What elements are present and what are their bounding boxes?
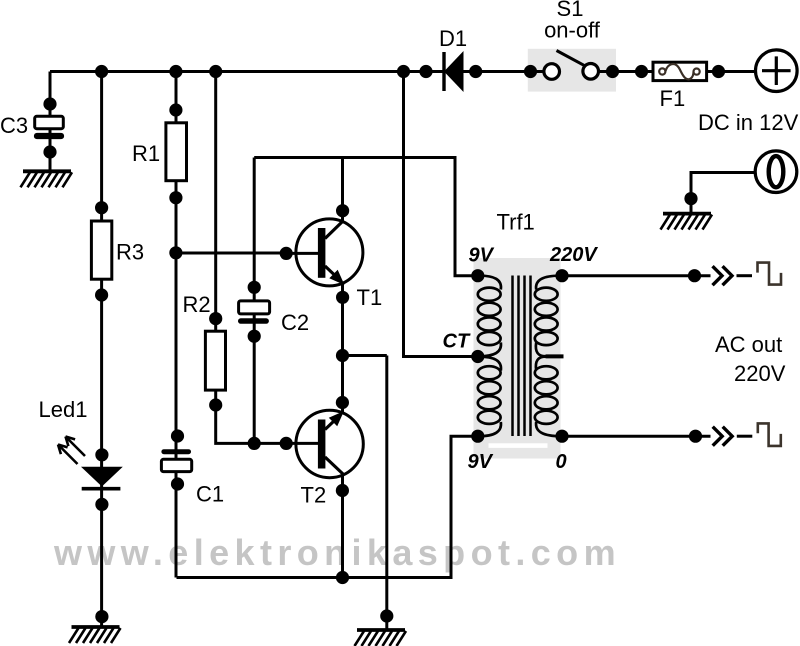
wire T1 base rail: [176, 252, 291, 255]
node emitter ground: [380, 609, 393, 622]
ground 0 terminal: [663, 212, 711, 216]
node F1 left: [635, 65, 648, 78]
svg-text:www.elektronikaspot.com: www.elektronikaspot.com: [53, 532, 621, 573]
wire top rail left of switch: [50, 70, 552, 73]
capacitor C2: [238, 301, 270, 324]
svg-text:0: 0: [556, 451, 567, 473]
node C2 bottom: [248, 330, 261, 343]
node AC out top: [688, 269, 701, 282]
svg-text:Led1: Led1: [39, 397, 88, 422]
transformer Trf1 primary winding lower (CT-9V): [478, 357, 501, 437]
svg-text:9V: 9V: [469, 244, 495, 266]
node 0-terminal ground: [684, 192, 697, 205]
node top-R3: [95, 65, 108, 78]
wire Trf1 220V to AC out top: [562, 274, 711, 277]
svg-text:on-off: on-off: [544, 17, 601, 42]
wire AC out bottom stub: [737, 435, 753, 438]
node T1 emitter: [336, 291, 349, 304]
node T1 collector: [336, 204, 349, 217]
node Trf1 9V bottom: [471, 430, 484, 443]
wire C2 column: [253, 158, 256, 444]
svg-text:220V: 220V: [734, 361, 786, 386]
node R3 top: [95, 201, 108, 214]
node bottom rail junction: [336, 571, 349, 584]
transformer Trf1 secondary tap tick: [546, 354, 564, 358]
transformer Trf1 core: [513, 276, 531, 437]
node AC out bottom: [689, 430, 702, 443]
node T2 base: [280, 437, 293, 450]
AC out bottom connector chevrons: [713, 427, 733, 446]
svg-text:CT: CT: [443, 331, 471, 353]
node Led1 top: [95, 448, 108, 461]
node Led1 ground: [95, 610, 108, 623]
wire R3 Led1 column: [100, 72, 103, 628]
switch S1 highlight background: [528, 49, 616, 92]
node T2 emitter: [336, 396, 349, 409]
svg-text:R2: R2: [183, 292, 211, 317]
node T1-base junction: [169, 246, 182, 259]
svg-text:220V: 220V: [549, 244, 598, 266]
AC out top square wave icon: [758, 263, 782, 285]
wire R2 column to T2 base rail: [216, 72, 291, 444]
ground below Led1: [72, 625, 120, 629]
ground below C3: [23, 169, 71, 173]
node S1 right: [606, 65, 619, 78]
ground emitter node: [357, 628, 405, 632]
svg-text:AC out: AC out: [715, 332, 782, 357]
transistor T2: [286, 410, 363, 477]
node R3 bottom: [95, 288, 108, 301]
wire Trf1 0 to AC out bottom: [562, 435, 711, 438]
node R2 bottom: [209, 398, 222, 411]
capacitor C3: [34, 116, 64, 139]
node R1 bottom: [169, 191, 182, 204]
resistor R2: [205, 331, 225, 390]
svg-text:C2: C2: [281, 310, 309, 335]
svg-text:T1: T1: [357, 285, 383, 310]
node C1 bottom: [171, 477, 184, 490]
node R1 top: [169, 103, 182, 116]
fuse F1: [653, 62, 707, 80]
svg-text:Trf1: Trf1: [497, 210, 535, 235]
switch S1: [544, 51, 599, 80]
wire C3 column: [49, 72, 52, 172]
AC out bottom square wave icon: [758, 423, 781, 446]
wire 0 terminal to ground: [691, 173, 756, 214]
terminal DC plus: [756, 50, 798, 92]
wire transistor spine: [341, 158, 344, 578]
svg-text:C3: C3: [0, 113, 28, 138]
node top-R2: [209, 65, 222, 78]
svg-text:R1: R1: [132, 141, 160, 166]
node C1 top: [171, 429, 184, 442]
node top-R1: [169, 65, 182, 78]
node Trf1 220V: [555, 269, 568, 282]
resistor R1: [166, 123, 187, 181]
transformer Trf1 secondary winding upper (220V side): [535, 276, 562, 357]
node C3 bottom: [43, 145, 56, 158]
node Trf1 0: [555, 430, 568, 443]
terminal DC zero: [755, 151, 797, 193]
transistor T1: [286, 219, 363, 286]
wire top rail switch to plus terminal: [590, 70, 756, 73]
node T1 base: [280, 247, 293, 260]
svg-text:T2: T2: [301, 483, 327, 508]
node C2 top: [248, 281, 261, 294]
node emitter junction: [336, 349, 349, 362]
svg-text:R3: R3: [116, 240, 144, 265]
wire R1 C1 column: [175, 72, 178, 578]
transformer Trf1 primary winding upper (9V-CT): [478, 276, 501, 357]
AC out top connector chevrons: [713, 266, 733, 285]
node top-CT: [397, 65, 410, 78]
wire CT branch: [404, 72, 478, 357]
node C3 top: [43, 97, 56, 110]
wire T1 collector rail to Trf1 9V top: [254, 158, 478, 276]
wire emitter junction to ground: [343, 356, 387, 631]
diode D1: [444, 51, 464, 92]
svg-text:9V: 9V: [468, 451, 494, 473]
transformer Trf1 background: [474, 258, 561, 459]
svg-text:DC in 12V: DC in 12V: [698, 110, 799, 135]
node R2 top: [209, 312, 222, 325]
node T2 collector: [336, 484, 349, 497]
node C2-T2base junction: [248, 437, 261, 450]
node D1 anode: [419, 65, 432, 78]
wire AC out top stub: [737, 274, 753, 277]
transformer Trf1 secondary winding lower (0 side): [535, 357, 562, 437]
node F1 right: [712, 65, 725, 78]
svg-text:D1: D1: [439, 26, 467, 51]
node S1 left: [524, 65, 537, 78]
LED Led1: [58, 437, 123, 489]
node Led1 bottom: [95, 498, 108, 511]
capacitor C1: [161, 449, 191, 471]
node D1 cathode: [469, 65, 482, 78]
node Trf1 9V top: [471, 269, 484, 282]
wire bottom rail C1 to Trf1 9V bottom: [177, 436, 478, 577]
node Trf1 CT: [471, 350, 484, 363]
resistor R3: [91, 221, 111, 279]
svg-text:C1: C1: [196, 482, 224, 507]
svg-text:F1: F1: [660, 86, 686, 111]
